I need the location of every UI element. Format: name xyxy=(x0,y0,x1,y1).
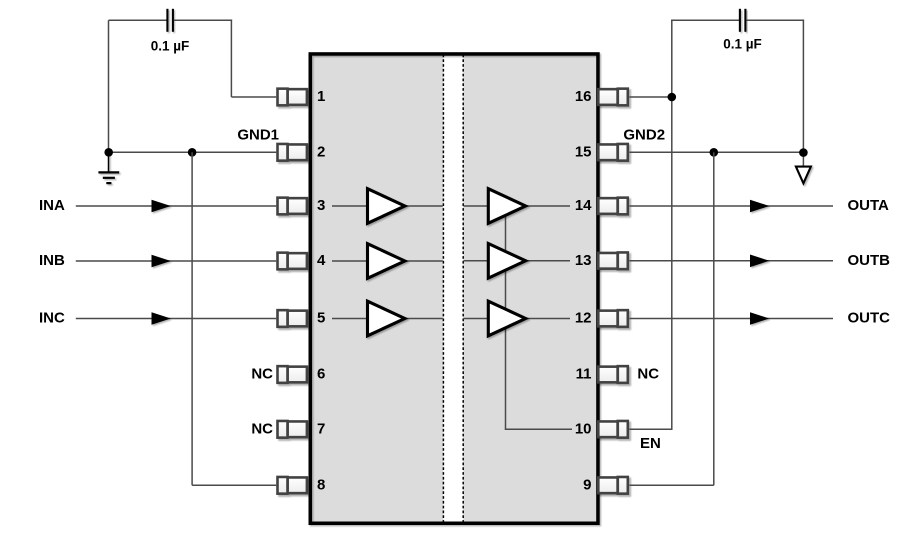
svg-text:3: 3 xyxy=(317,197,325,214)
svg-text:OUTB: OUTB xyxy=(848,252,891,269)
wire pin 16 to C2 net xyxy=(629,96,672,98)
wire buffer A1 output to barrier xyxy=(404,205,443,207)
arrow INC signal direction xyxy=(152,312,171,325)
pin 6 terminal symbol xyxy=(278,366,307,383)
svg-text:GND1: GND1 xyxy=(237,127,279,144)
pin 7 terminal symbol xyxy=(278,421,307,438)
capacitor C2 plates xyxy=(740,9,746,32)
wire barrier to buffer B2 input xyxy=(464,260,489,262)
buffer amplifier B1 (input side) xyxy=(368,244,405,279)
arrow OUTA signal direction xyxy=(750,200,769,213)
pin 15 terminal symbol xyxy=(598,144,628,161)
pin 11 terminal symbol xyxy=(598,366,628,383)
arrow OUTB signal direction xyxy=(750,255,769,268)
svg-text:2: 2 xyxy=(317,144,325,161)
pin 8 terminal symbol xyxy=(278,477,307,494)
pin 16 terminal symbol xyxy=(598,89,628,106)
svg-text:NC: NC xyxy=(251,366,273,383)
wire OUTA output xyxy=(629,205,833,207)
pin 14 terminal symbol xyxy=(598,198,628,215)
svg-text:5: 5 xyxy=(317,310,325,327)
buffer amplifier C1 (input side) xyxy=(368,301,405,336)
junction node GND2 / pin 9 branch xyxy=(710,148,719,157)
buffer amplifier C2 (output side) xyxy=(488,301,525,336)
wire pin 3 to buffer A1 input xyxy=(332,205,367,207)
pin 3 terminal symbol xyxy=(278,198,307,215)
svg-text:14: 14 xyxy=(575,197,592,214)
arrow INB signal direction xyxy=(152,255,171,268)
capacitor C1 plates xyxy=(167,9,173,32)
wire buffer C2 output to pin 12 xyxy=(525,318,570,320)
svg-text:6: 6 xyxy=(317,366,325,383)
svg-text:11: 11 xyxy=(576,366,592,383)
pin 2 terminal symbol xyxy=(278,144,307,161)
wire buffer B1 output to barrier xyxy=(404,260,443,262)
wire INC input xyxy=(76,318,276,320)
wire GND1 branch to pin 8 xyxy=(192,484,276,486)
junction node GND2 / C2 xyxy=(799,148,808,157)
pin 12 terminal symbol xyxy=(598,310,628,327)
wire INB input xyxy=(76,260,276,262)
wire OUTC output xyxy=(629,318,833,320)
wire C1 to pin 1 vertical xyxy=(230,19,232,97)
ground symbol GND1 (earth) xyxy=(98,152,119,183)
junction node GND1 / C1 xyxy=(104,148,113,157)
capacitor C1 left wire xyxy=(109,19,167,21)
svg-text:0.1 µF: 0.1 µF xyxy=(723,37,762,52)
junction node GND1 / pin 8 branch xyxy=(188,148,197,157)
junction node pin16 / C2 / EN xyxy=(668,93,677,102)
wire OUTB output xyxy=(629,260,833,262)
svg-text:INC: INC xyxy=(39,310,65,327)
wire C1 to GND1 vertical xyxy=(108,20,110,152)
svg-text:1: 1 xyxy=(317,88,325,105)
svg-text:10: 10 xyxy=(575,421,592,438)
isolation barrier strip xyxy=(443,56,463,523)
wire C2/VCC2 vertical (C2 top to EN) xyxy=(671,19,673,429)
svg-text:4: 4 xyxy=(317,252,326,269)
wire buffer C1 output to barrier xyxy=(404,318,443,320)
svg-text:8: 8 xyxy=(317,477,325,494)
wire GND2 branch to pin 9 xyxy=(629,484,714,486)
wire INA input xyxy=(76,205,276,207)
buffer amplifier A1 (input side) xyxy=(368,189,405,224)
capacitor C2 right wire xyxy=(746,19,804,21)
wire GND1 bus (to pin 2) xyxy=(109,151,277,153)
IC U1 border xyxy=(310,54,598,523)
svg-text:16: 16 xyxy=(575,88,592,105)
svg-text:OUTA: OUTA xyxy=(848,197,890,214)
svg-text:INA: INA xyxy=(39,197,65,214)
wire GND2 bus (pin 15 to C2) xyxy=(629,151,803,153)
svg-text:GND2: GND2 xyxy=(623,127,665,144)
svg-text:15: 15 xyxy=(575,144,592,161)
isolation barrier right dashed line xyxy=(462,55,464,525)
wire GND2 to pin 9 vertical xyxy=(713,152,715,485)
wire pin 4 to buffer B1 input xyxy=(332,260,367,262)
svg-text:0.1 µF: 0.1 µF xyxy=(151,39,190,54)
svg-text:EN: EN xyxy=(640,435,661,452)
wire EN pin 10 xyxy=(629,428,672,430)
buffer amplifier A2 (output side) xyxy=(488,189,525,224)
svg-text:12: 12 xyxy=(575,310,592,327)
isolation barrier left dashed line xyxy=(442,55,444,525)
capacitor C1 right wire xyxy=(174,19,232,21)
svg-text:NC: NC xyxy=(637,366,659,383)
wire buffer A2 output to pin 14 xyxy=(525,205,570,207)
buffer amplifier B2 (output side) xyxy=(488,244,525,279)
wire buffer B2 output to pin 13 xyxy=(525,260,570,262)
pin 4 terminal symbol xyxy=(278,253,307,270)
svg-text:13: 13 xyxy=(575,252,592,269)
svg-text:9: 9 xyxy=(583,477,591,494)
arrow OUTC signal direction xyxy=(750,312,769,325)
wire C2 to GND2 vertical xyxy=(802,19,804,166)
pin 13 terminal symbol xyxy=(598,252,628,269)
pin 9 terminal symbol xyxy=(598,477,628,494)
svg-text:7: 7 xyxy=(317,421,325,438)
svg-text:INB: INB xyxy=(39,252,65,269)
wire EN internal vertical (buffer enables to pin 10) xyxy=(505,216,507,429)
svg-text:OUTC: OUTC xyxy=(848,310,891,327)
capacitor C2 left wire xyxy=(671,19,739,21)
wire barrier to buffer A2 input xyxy=(464,205,489,207)
wire barrier to buffer C2 input xyxy=(464,318,489,320)
wire to pin 1 xyxy=(231,96,276,98)
IC U1 body xyxy=(310,54,598,523)
wire pin 5 to buffer C1 input xyxy=(332,318,367,320)
arrow INA signal direction xyxy=(152,200,171,213)
wire EN internal horizontal to pin 10 xyxy=(505,428,572,430)
svg-text:NC: NC xyxy=(251,421,273,438)
ground symbol GND2 (signal ground triangle) xyxy=(796,167,811,184)
pin 10 terminal symbol xyxy=(598,421,628,438)
wire GND1 to pin 8 vertical xyxy=(191,152,193,485)
pin 1 terminal symbol xyxy=(278,89,307,106)
pin 5 terminal symbol xyxy=(278,310,307,327)
